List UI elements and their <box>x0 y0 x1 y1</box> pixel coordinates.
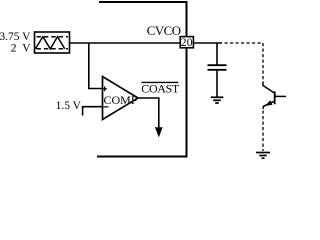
dashed wire: CVCO node to transistor collector <box>225 43 264 82</box>
svg-text:20: 20 <box>181 35 193 49</box>
svg-text:COAST: COAST <box>141 82 180 96</box>
IC outline U1 (partial: top, right, bottom edges) <box>97 2 187 157</box>
wire: source box to pin 20 <box>70 42 181 44</box>
transistor Q1 (NPN) <box>263 82 286 110</box>
net label COAST (active-low, overline) <box>141 82 180 96</box>
triangle-wave oscillator source box <box>35 32 70 53</box>
wire: comparator output to COAST <box>138 98 159 129</box>
wire: pin 20 to capacitor node <box>194 42 222 44</box>
wire: node down to capacitor C1 <box>216 43 218 65</box>
op-amp comparator COMP <box>102 77 138 120</box>
capacitor C1 <box>208 65 227 70</box>
dashed wire: emitter to ground <box>262 111 264 152</box>
svg-text:3.75 V: 3.75 V <box>0 31 31 43</box>
arrowhead to COAST circuit <box>155 127 163 137</box>
ground (transistor emitter) <box>256 153 270 159</box>
wire: 1.5 V reference to comparator - input <box>83 107 103 116</box>
svg-text:CVCO: CVCO <box>147 24 181 38</box>
svg-text:COMP: COMP <box>104 93 138 107</box>
wire: junction drop to comparator + input <box>89 43 103 89</box>
svg-text:2 V: 2 V <box>11 43 32 55</box>
wire: capacitor to ground <box>216 70 218 97</box>
ground (capacitor) <box>211 97 224 103</box>
pin 20 box <box>180 35 193 49</box>
svg-text:1.5 V: 1.5 V <box>56 100 82 112</box>
